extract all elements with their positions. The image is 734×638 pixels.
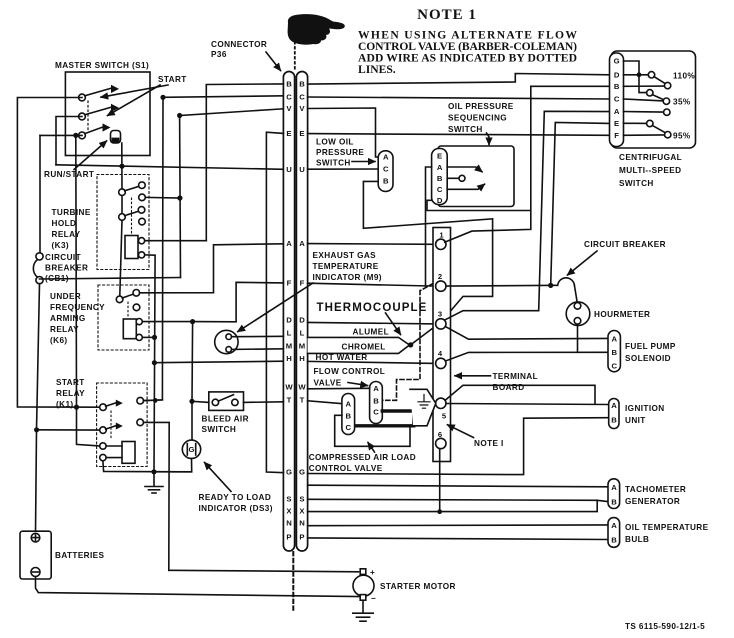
wire L-row from M9	[232, 335, 284, 337]
ready to load label	[199, 493, 273, 513]
svg-text:UNDER: UNDER	[50, 292, 81, 301]
svg-text:SWITCH: SWITCH	[202, 425, 237, 434]
svg-text:BULB: BULB	[625, 535, 649, 544]
circuit breaker arc	[558, 278, 575, 285]
wire DS3 bus	[191, 322, 194, 441]
wire B-row left to K3 coil	[206, 84, 283, 241]
switch mechanical link (dotted)	[87, 101, 89, 132]
hook wire comp B around	[335, 415, 410, 446]
svg-text:E: E	[286, 129, 291, 138]
wire A-row left to K6 contact	[140, 244, 284, 293]
K1 mech link dotted	[110, 411, 112, 440]
wire CB1 lower lead down to battery	[36, 284, 40, 534]
starter ground	[362, 600, 364, 612]
svg-text:C: C	[614, 95, 620, 104]
ground pentagon at terminal 5	[410, 389, 436, 426]
svg-text:TACHOMETER: TACHOMETER	[625, 485, 686, 494]
svg-text:INDICATOR (DS3): INDICATOR (DS3)	[199, 504, 273, 513]
svg-text:TURBINE: TURBINE	[52, 208, 91, 217]
wire battery minus to starter minus	[36, 577, 360, 597]
svg-text:U: U	[299, 165, 305, 174]
wire cylinder to relay pivots	[121, 143, 123, 192]
batteries box	[20, 531, 51, 579]
svg-text:B: B	[373, 396, 379, 405]
svg-text:START: START	[158, 75, 187, 84]
M9 pointer line over connector	[238, 283, 313, 332]
svg-text:TS 6115-590-12/1-5: TS 6115-590-12/1-5	[625, 622, 705, 631]
wire W-row to flow A	[308, 387, 370, 390]
svg-text:P36: P36	[211, 50, 227, 59]
alumel label	[353, 328, 390, 337]
svg-text:−: −	[371, 594, 376, 603]
svg-text:W: W	[298, 383, 306, 392]
wire K1 sw2 fixed to starter bus	[144, 422, 170, 570]
K1 contact set 2	[100, 427, 107, 434]
svg-text:STARTER MOTOR: STARTER MOTOR	[380, 582, 456, 591]
svg-text:A: A	[611, 401, 617, 410]
thermocouple pennant	[308, 337, 410, 353]
svg-text:S: S	[286, 494, 291, 503]
K6 contact	[116, 296, 123, 303]
svg-text:B: B	[611, 497, 617, 506]
svg-text:BOARD: BOARD	[493, 383, 525, 392]
ready to load indicator DS3 lamp	[182, 440, 200, 458]
svg-text:SWITCH: SWITCH	[619, 179, 654, 188]
wire oil-seq A riser to terminal 2	[426, 167, 432, 286]
wire centrifugal A down to terminal 3	[445, 111, 609, 319]
ready to load pointer	[205, 463, 232, 492]
node H-row tie	[152, 360, 157, 365]
svg-text:CONNECTOR: CONNECTOR	[211, 40, 267, 49]
hourmeter	[566, 302, 590, 326]
svg-text:TERMINAL: TERMINAL	[493, 372, 539, 381]
svg-text:A: A	[611, 483, 617, 492]
svg-text:SOLENOID: SOLENOID	[625, 354, 671, 363]
low oil arrow	[352, 161, 375, 163]
fuel pump label	[625, 342, 676, 363]
K1 coil	[122, 442, 135, 464]
svg-text:B: B	[437, 174, 443, 183]
run/start actuator cylinder	[111, 131, 121, 144]
svg-text:2: 2	[438, 272, 442, 281]
svg-text:A: A	[373, 384, 379, 393]
wire V-row right down to low oil A	[308, 108, 379, 157]
svg-text:CIRCUIT BREAKER: CIRCUIT BREAKER	[584, 240, 666, 249]
svg-text:D: D	[614, 70, 620, 79]
wire K3 coil bottom to ground bus	[145, 255, 155, 472]
note I pointer	[448, 425, 474, 438]
master switch S1 box	[65, 72, 150, 156]
svg-text:V: V	[299, 104, 305, 113]
connector label	[211, 40, 267, 59]
wire M-row from M9	[232, 348, 284, 351]
svg-text:A: A	[614, 107, 620, 116]
flow control valve label	[314, 367, 386, 388]
wire F-row left to K6 coil	[193, 282, 284, 322]
low oil pressure switch connector	[378, 151, 393, 192]
svg-text:MULTI--SPEED: MULTI--SPEED	[619, 166, 681, 175]
switch S1 pole 2	[79, 113, 86, 120]
oil pressure sequencing switch box	[438, 146, 514, 207]
circuit breaker pointer	[568, 251, 598, 275]
wire breaker to hourmeter	[574, 285, 577, 302]
wire T-row to comp air A	[308, 401, 342, 404]
svg-text:SWITCH: SWITCH	[448, 125, 483, 134]
wire S-row unlabeled to tach A	[308, 485, 608, 487]
wire X-row step	[308, 500, 608, 511]
svg-text:CONTROL VALVE: CONTROL VALVE	[309, 464, 383, 473]
svg-text:OIL PRESSURE: OIL PRESSURE	[448, 102, 514, 111]
wire terminal 3 to fuel pump A	[446, 327, 608, 340]
oil seq pointer arrow	[487, 133, 490, 145]
flow control valve connector	[370, 382, 383, 424]
wire K3 coil top to B-bus	[145, 240, 207, 242]
wire B-row right step to centrifugal D	[308, 74, 610, 85]
centrifugal G internal wire	[624, 61, 640, 75]
circuit breaker CB1	[36, 253, 43, 260]
wire to K1 sw2 pivot	[37, 429, 100, 431]
compressed air label	[309, 453, 416, 473]
relay K6 dashed box	[98, 285, 149, 350]
svg-text:L: L	[300, 329, 305, 338]
svg-text:N: N	[286, 519, 292, 528]
wire terminal 5 to ignition A	[446, 404, 609, 405]
wire centrifugal B down to terminal 1	[445, 86, 610, 242]
wire E-row left bus down to G-row	[266, 132, 283, 473]
svg-text:35%: 35%	[673, 97, 691, 106]
wire CB1 to K3-NC bus	[40, 278, 181, 280]
svg-text:ARMING: ARMING	[50, 314, 86, 323]
svg-text:X: X	[286, 507, 292, 516]
svg-text:UNIT: UNIT	[625, 416, 646, 425]
svg-text:INDICATOR (M9): INDICATOR (M9)	[313, 273, 382, 282]
low oil switch label	[316, 138, 364, 168]
svg-text:FREQUENCY: FREQUENCY	[50, 303, 105, 312]
terminal 1	[436, 239, 446, 249]
wire H-row	[154, 361, 283, 363]
K3 contact set 1	[119, 189, 126, 196]
svg-text:COMPRESSED AIR LOAD: COMPRESSED AIR LOAD	[309, 453, 416, 462]
wire DS3 bottom to ground	[154, 459, 192, 472]
terminal numbers	[438, 230, 447, 439]
battery - terminal	[31, 568, 40, 577]
svg-text:D: D	[299, 316, 305, 325]
node K3 NC tie	[177, 195, 182, 200]
node K6 coil gnd tie	[152, 335, 157, 340]
compressed air valve connector	[342, 394, 355, 435]
dotted line from hand to connector	[294, 42, 296, 70]
svg-text:TEMPERATURE: TEMPERATURE	[313, 262, 379, 271]
node sw2/V junction	[177, 113, 182, 118]
svg-text:110%: 110%	[673, 71, 695, 80]
svg-text:FLOW CONTROL: FLOW CONTROL	[314, 367, 386, 376]
wire terminal 6 drop to X-row	[439, 449, 441, 512]
svg-text:BLEED AIR: BLEED AIR	[202, 415, 249, 424]
battery + terminal	[31, 533, 40, 542]
wire K1 to starter plus	[169, 570, 359, 572]
svg-text:D: D	[437, 196, 443, 205]
wire centrifugal E down to terminal 2	[551, 123, 610, 286]
chromel label	[342, 342, 386, 351]
wire thermocouple dot to terminal 3	[411, 326, 436, 345]
terminal 3	[436, 319, 446, 329]
tachometer generator connector	[608, 479, 620, 509]
svg-text:F: F	[287, 279, 292, 288]
node sw3 branch	[73, 133, 78, 138]
wire hourmeter to fuel B line	[577, 324, 579, 352]
wire C-row right to centrifugal C	[308, 97, 610, 99]
pentagon ground symbol	[418, 395, 430, 409]
svg-text:(K1): (K1)	[56, 400, 74, 409]
svg-text:OIL TEMPERATURE: OIL TEMPERATURE	[625, 523, 709, 532]
wire oil-seq D to centrifugal-B line	[427, 200, 530, 210]
wire G-row to ignition B riser	[308, 418, 609, 475]
terminal 6	[436, 438, 446, 448]
svg-text:C: C	[612, 362, 618, 371]
wire D-row right to terminal 3	[308, 322, 436, 324]
svg-text:T: T	[300, 395, 305, 404]
svg-text:HOURMETER: HOURMETER	[594, 310, 650, 319]
svg-text:C: C	[286, 93, 292, 102]
wire K6 coil bottom to gnd bus	[142, 336, 154, 338]
svg-text:RELAY: RELAY	[56, 389, 85, 398]
terminal board label	[493, 372, 539, 392]
wire K6 coil top to F-wire	[142, 321, 192, 323]
svg-text:95%: 95%	[673, 131, 691, 140]
svg-text:IGNITION: IGNITION	[625, 404, 665, 413]
svg-text:+: +	[370, 568, 375, 577]
svg-text:CIRCUIT: CIRCUIT	[45, 253, 81, 262]
svg-text:L: L	[287, 329, 292, 338]
svg-text:B: B	[614, 82, 620, 91]
node K6 coil top / DS3 bus	[190, 319, 195, 324]
svg-text:X: X	[299, 507, 305, 516]
svg-text:T: T	[287, 395, 292, 404]
svg-text:N: N	[299, 519, 305, 528]
terminal 2	[436, 281, 446, 291]
svg-text:F: F	[300, 279, 305, 288]
node sw1/K6-bus junction	[74, 405, 79, 410]
relay K3 dashed box	[97, 175, 149, 270]
start relay K1 label	[56, 378, 85, 409]
svg-text:RELAY: RELAY	[52, 230, 81, 239]
flow valve arrow	[348, 383, 368, 386]
svg-text:A: A	[299, 239, 305, 248]
fuel pump solenoid connector	[608, 331, 620, 372]
svg-text:E: E	[437, 151, 442, 160]
svg-text:6: 6	[438, 430, 442, 439]
wire bleed air to T... no, to connector	[244, 401, 284, 404]
exhaust gas temperature indicator M9	[215, 330, 238, 353]
run/start arrow	[74, 141, 107, 170]
wire H-row right to terminal 4	[308, 361, 436, 363]
wire sw1 left down to K1 pivot	[17, 98, 99, 408]
connector centerline dashed below	[292, 552, 294, 610]
wire N-row to oil temp A	[308, 524, 608, 527]
svg-text:LINES.: LINES.	[358, 63, 396, 76]
svg-text:RELAY: RELAY	[50, 325, 79, 334]
K3 coil	[125, 236, 138, 259]
svg-text:NOTE I: NOTE I	[474, 439, 504, 448]
terminal board arrow	[455, 375, 491, 377]
svg-text:READY TO LOAD: READY TO LOAD	[199, 493, 272, 502]
svg-text:P: P	[299, 532, 304, 541]
ignition label	[625, 404, 665, 425]
wire sw2 left down	[56, 117, 82, 165]
connector pin letters right column	[298, 80, 306, 542]
svg-text:BREAKER: BREAKER	[45, 264, 88, 273]
svg-text:B: B	[612, 348, 618, 357]
svg-text:CENTRIFUGAL: CENTRIFUGAL	[619, 153, 682, 162]
thermocouple pointer	[386, 313, 401, 335]
svg-text:H: H	[299, 354, 305, 363]
svg-text:C: C	[373, 408, 379, 417]
oil seq connector strip	[432, 149, 448, 205]
switch S1 pole 3	[79, 132, 86, 139]
wire E-row right to centrifugal F	[308, 134, 610, 136]
svg-text:THERMOCOUPLE: THERMOCOUPLE	[317, 302, 428, 314]
wire CB1 upper lead	[39, 135, 41, 252]
svg-text:E: E	[614, 119, 619, 128]
svg-text:B: B	[383, 177, 389, 186]
svg-text:P: P	[286, 532, 291, 541]
svg-text:A: A	[612, 335, 618, 344]
svg-text:B: B	[286, 80, 292, 89]
K1 contact set 1	[100, 404, 107, 411]
wire terminal 4 to fuel pump B	[446, 352, 609, 361]
wire V-row	[180, 109, 284, 116]
svg-text:A: A	[383, 153, 389, 162]
wire sw3 bus down to K1	[76, 135, 100, 446]
connector P36 right column	[296, 72, 307, 552]
svg-text:A: A	[286, 239, 292, 248]
wire sw3 left	[40, 134, 82, 136]
svg-text:B: B	[346, 411, 352, 420]
centrifugal label	[619, 153, 682, 188]
oil seq internal contacts	[459, 175, 465, 181]
centrifugal 35% switch	[639, 75, 647, 93]
run/start label	[44, 170, 94, 179]
centrifugal A contact	[624, 111, 664, 114]
pointing hand icon	[288, 14, 345, 45]
wire K1 coil bottom to ground	[103, 461, 192, 472]
svg-text:F: F	[614, 131, 619, 140]
svg-text:C: C	[299, 93, 305, 102]
terminal 4	[436, 358, 446, 368]
wire U-row right to low oil switch	[308, 168, 379, 170]
turbine hold relay K3 label	[52, 208, 91, 250]
svg-text:SEQUENCING: SEQUENCING	[448, 114, 507, 123]
connector callout arrow	[266, 52, 281, 71]
ignition unit connector	[609, 399, 619, 429]
wire F-row right to terminal 2	[308, 283, 435, 286]
dashed alternate wiring path	[421, 284, 434, 291]
svg-text:U: U	[286, 165, 292, 174]
wire A-row right to terminal 1	[308, 243, 436, 246]
svg-text:G: G	[189, 445, 195, 454]
svg-text:G: G	[299, 468, 305, 477]
svg-text:FUEL PUMP: FUEL PUMP	[625, 342, 676, 351]
terminal board	[433, 228, 451, 462]
under frequency arming relay K6 label	[50, 292, 105, 345]
connector pin letters left column	[285, 80, 293, 542]
svg-text:PRESSURE: PRESSURE	[316, 148, 364, 157]
M9 label	[313, 251, 382, 282]
circuit breaker label right	[584, 240, 666, 249]
starter motor	[353, 575, 374, 596]
compressed air arrow	[368, 443, 375, 453]
svg-text:C: C	[383, 164, 389, 173]
wire S-row to tach B	[308, 499, 598, 500]
svg-text:B: B	[611, 536, 617, 545]
centrifugal connector strip	[610, 53, 624, 147]
master switch S1 label	[55, 61, 149, 70]
ground under K1	[153, 472, 155, 486]
centrifugal multi-speed switch box	[611, 51, 696, 148]
bleed air switch box	[209, 392, 244, 411]
centrifugal 110% switch	[624, 74, 649, 76]
drawing number	[625, 622, 705, 631]
K6 mech link dotted	[127, 302, 129, 317]
svg-text:NOTE 1: NOTE 1	[417, 7, 477, 23]
svg-text:A: A	[346, 400, 352, 409]
svg-text:MASTER SWITCH (S1): MASTER SWITCH (S1)	[55, 61, 149, 70]
svg-text:EXHAUST GAS: EXHAUST GAS	[313, 251, 377, 260]
note 1 paragraph	[358, 29, 577, 77]
svg-text:V: V	[286, 104, 292, 113]
svg-text:ALUMEL: ALUMEL	[353, 328, 390, 337]
svg-text:E: E	[299, 129, 304, 138]
svg-text:RUN/START: RUN/START	[44, 170, 94, 179]
thick wire flow C to ground pentagon	[356, 411, 414, 426]
switch S1 pole 1	[79, 94, 86, 101]
svg-text:(K3): (K3)	[52, 241, 70, 250]
svg-text:S: S	[299, 494, 304, 503]
node sw1/C junction	[160, 95, 165, 100]
wire P-row to oil temp B	[308, 538, 608, 540]
svg-text:M: M	[299, 342, 305, 351]
hot water label	[316, 353, 368, 362]
svg-text:C: C	[346, 423, 352, 432]
K3 mech link dotted	[131, 198, 133, 234]
svg-text:D: D	[286, 316, 292, 325]
svg-text:VALVE: VALVE	[314, 379, 342, 388]
oil temperature bulb connector	[608, 518, 620, 548]
svg-text:HOT WATER: HOT WATER	[316, 353, 368, 362]
svg-text:BATTERIES: BATTERIES	[55, 551, 105, 560]
start label	[158, 75, 187, 84]
node ground junction	[151, 469, 156, 474]
wire U-row from sw2 bus	[56, 165, 283, 170]
svg-text:B: B	[299, 80, 305, 89]
wire terminal 2 to breaker	[446, 284, 558, 287]
thermocouple label	[317, 302, 428, 314]
terminal 5	[436, 398, 446, 408]
svg-text:C: C	[437, 185, 443, 194]
svg-text:3: 3	[438, 310, 442, 319]
centrifugal 95% switch	[624, 122, 648, 124]
svg-text:SWITCH: SWITCH	[316, 159, 351, 168]
node cylinder/U junction	[119, 164, 124, 169]
svg-text:A: A	[611, 521, 617, 530]
svg-text:M: M	[286, 342, 292, 351]
svg-text:START: START	[56, 378, 85, 387]
thermocouple junction dot	[408, 342, 413, 347]
relay K1 dashed box	[97, 383, 148, 467]
wire C-row	[163, 96, 283, 98]
svg-text:W: W	[285, 383, 293, 392]
svg-text:GENERATOR: GENERATOR	[625, 497, 680, 506]
